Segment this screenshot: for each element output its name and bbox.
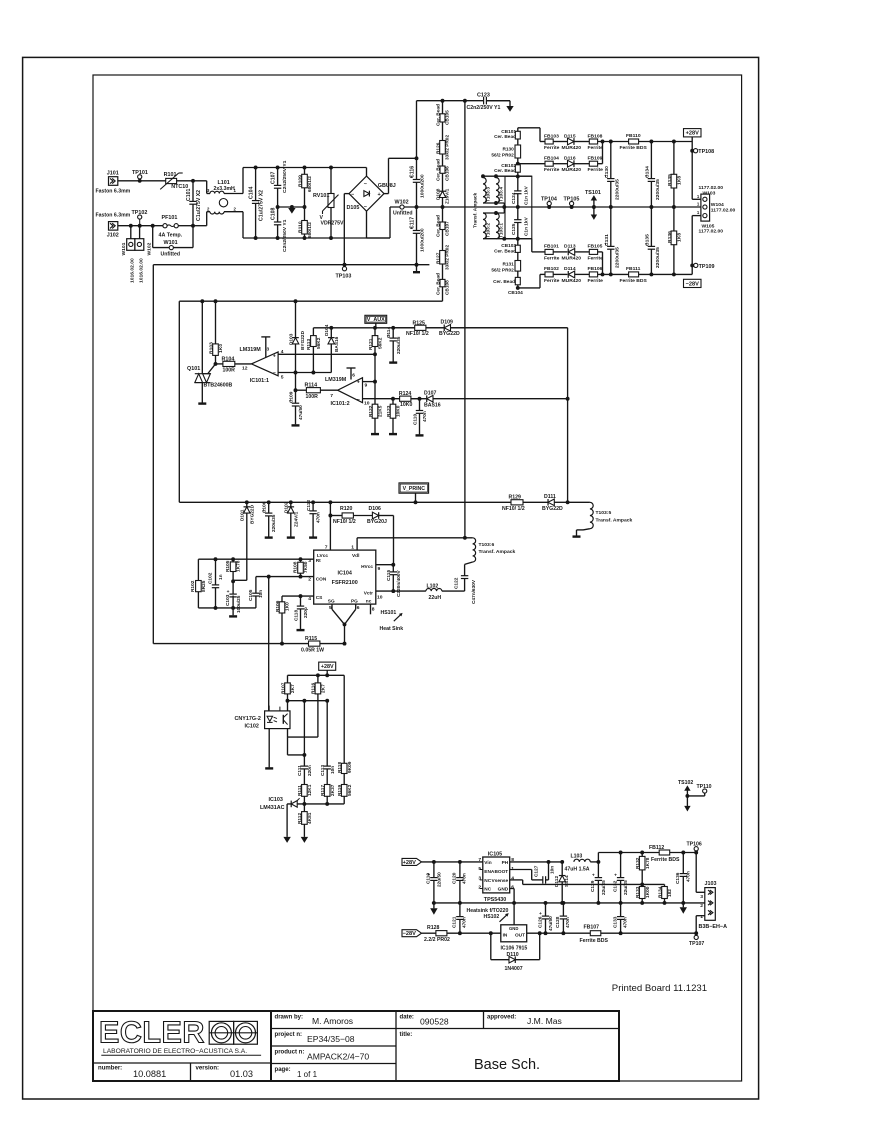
connector W103 W104 W105	[692, 198, 701, 200]
wire Vdl	[357, 537, 465, 539]
test point TP102	[138, 224, 142, 228]
svg-text:2.2/2 PR02: 2.2/2 PR02	[424, 937, 450, 943]
svg-text:GND: GND	[498, 887, 509, 893]
net label V_PRINC	[399, 483, 429, 493]
svg-text:C119: C119	[426, 873, 432, 884]
svg-text:9: 9	[378, 566, 381, 572]
svg-text:C129: C129	[590, 880, 596, 892]
svg-text:+: +	[378, 192, 381, 198]
svg-text:1K8: 1K8	[677, 176, 683, 185]
resistor R117	[324, 785, 330, 797]
capacitor C117	[416, 207, 418, 230]
svg-text:D114: D114	[564, 266, 576, 272]
svg-text:BTB24600B: BTB24600B	[204, 382, 233, 388]
svg-text:J102: J102	[107, 233, 119, 239]
resistor R106	[281, 596, 283, 602]
svg-text:BYG22D: BYG22D	[542, 506, 563, 512]
svg-text:100R: 100R	[306, 394, 319, 400]
wire	[286, 804, 288, 837]
svg-text:C126: C126	[537, 916, 543, 928]
svg-text:CB107: CB107	[445, 221, 451, 236]
svg-text:NF10/ 1/2: NF10/ 1/2	[502, 506, 525, 512]
svg-text:ECLER: ECLER	[99, 1016, 205, 1050]
svg-text:number:: number:	[98, 1066, 122, 1072]
svg-text:C106: C106	[262, 501, 268, 513]
svg-text:2K7: 2K7	[290, 684, 296, 693]
wire	[278, 206, 305, 208]
svg-text:W102: W102	[395, 200, 409, 206]
svg-text:1 of 1: 1 of 1	[297, 1070, 318, 1079]
svg-text:+: +	[614, 874, 617, 879]
svg-text:C104: C104	[249, 187, 255, 199]
svg-text:470n: 470n	[565, 917, 571, 928]
wire LED cathode	[268, 729, 270, 768]
ferrite bead FB101	[545, 249, 553, 254]
svg-text:B3B−EH−A: B3B−EH−A	[699, 924, 728, 930]
svg-text:+28V: +28V	[403, 860, 417, 866]
ferrite bead CB108	[442, 264, 444, 279]
svg-text:R122: R122	[368, 405, 374, 417]
ground stub	[198, 402, 206, 404]
svg-text:7: 7	[325, 545, 328, 551]
svg-text:drawn by:: drawn by:	[275, 1015, 304, 1021]
svg-text:10n: 10n	[258, 590, 264, 598]
svg-text:D116: D116	[564, 156, 576, 162]
wire	[483, 238, 532, 240]
svg-text:Cer. Bead: Cer. Bead	[436, 273, 442, 295]
svg-text:7: 7	[330, 393, 333, 399]
svg-text:FB104: FB104	[544, 156, 559, 162]
resistor R121	[374, 328, 376, 336]
svg-text:220n: 220n	[307, 765, 313, 776]
svg-text:1K00: 1K00	[645, 886, 651, 898]
svg-text:BYG22D: BYG22D	[249, 504, 255, 524]
svg-text:R126: R126	[436, 142, 442, 154]
svg-text:Transf. Ampack: Transf. Ampack	[479, 549, 516, 555]
svg-text:6: 6	[352, 372, 355, 378]
svg-text:C47n/630V: C47n/630V	[471, 579, 477, 604]
wire minus output	[344, 193, 349, 195]
svg-text:−28V: −28V	[403, 931, 417, 937]
op-amp IC101:1 LM319M	[251, 352, 278, 376]
svg-text:8R25: 8R25	[201, 580, 207, 592]
svg-text:TP107: TP107	[689, 941, 704, 947]
svg-text:J.M. Mas: J.M. Mas	[527, 1016, 562, 1026]
wire	[178, 225, 193, 227]
svg-text:IC101:1: IC101:1	[250, 378, 269, 384]
svg-text:R102: R102	[190, 580, 196, 592]
svg-text:5: 5	[329, 605, 332, 611]
svg-text:8: 8	[372, 607, 375, 613]
wire	[288, 674, 345, 676]
svg-text:D104: D104	[324, 324, 330, 336]
svg-text:R106: R106	[275, 600, 281, 612]
wire pin 9	[363, 381, 376, 383]
svg-text:NF10/ 1/2: NF10/ 1/2	[406, 331, 429, 337]
svg-text:TS101: TS101	[585, 190, 601, 196]
svg-text:C122: C122	[454, 577, 460, 589]
svg-text:C133: C133	[612, 916, 618, 928]
bridge rectifier D105 GBU8J	[349, 176, 384, 211]
svg-text:W105: W105	[702, 223, 715, 229]
svg-text:C107: C107	[271, 172, 277, 184]
svg-text:1000u/200: 1000u/200	[420, 174, 426, 198]
svg-text:Unfitted: Unfitted	[393, 211, 413, 217]
svg-text:T103:5: T103:5	[596, 510, 612, 516]
diode D115	[553, 141, 567, 143]
test point TP110	[687, 795, 704, 797]
capacitor C115	[392, 565, 394, 572]
test point TP106	[694, 851, 698, 855]
thermistor R101 NTC10	[166, 178, 177, 183]
svg-text:Faston 6.3mm: Faston 6.3mm	[96, 189, 131, 195]
svg-text:IC104: IC104	[338, 571, 352, 577]
capacitor C126	[545, 903, 547, 916]
svg-text:R131: R131	[502, 262, 514, 268]
wire	[177, 180, 207, 182]
svg-text:TS102: TS102	[678, 780, 693, 786]
svg-text:C117: C117	[410, 217, 416, 229]
svg-text:product n:: product n:	[275, 1050, 305, 1056]
svg-text:10n: 10n	[550, 866, 556, 874]
pin 9 stub HVcc	[376, 564, 394, 566]
wire	[601, 932, 696, 934]
svg-text:Cer. Bead: Cer. Bead	[494, 168, 516, 174]
svg-text:ENA: ENA	[484, 869, 495, 875]
diode D111	[523, 501, 548, 503]
transformer winding T103:5	[568, 501, 590, 503]
svg-text:4: 4	[281, 349, 284, 355]
svg-text:FB107: FB107	[584, 924, 600, 930]
svg-text:R129: R129	[509, 494, 521, 500]
svg-text:C132: C132	[612, 880, 618, 892]
transformer winding T103:1	[496, 213, 499, 239]
test point TP103	[343, 263, 347, 267]
svg-text:CB101: CB101	[501, 129, 516, 135]
wire minus rail	[153, 264, 429, 266]
resistor R127	[442, 230, 444, 251]
resistor R133	[641, 884, 643, 886]
svg-text:C102: C102	[207, 572, 213, 584]
capacitor C131	[610, 207, 612, 246]
wire feedback	[523, 883, 665, 885]
svg-text:D110: D110	[507, 952, 519, 958]
svg-text:R107: R107	[280, 682, 286, 694]
svg-text:IC106 7915: IC106 7915	[501, 945, 528, 951]
svg-text:TP102: TP102	[132, 210, 148, 216]
resistor R128	[422, 932, 436, 934]
svg-text:C114: C114	[386, 327, 392, 338]
capacitor C136	[682, 853, 684, 874]
ground stub	[371, 433, 379, 435]
svg-text:C116: C116	[410, 166, 416, 178]
svg-text:22u/25: 22u/25	[623, 880, 629, 895]
svg-text:Z24V/1: Z24V/1	[293, 511, 299, 527]
svg-text:C123: C123	[477, 92, 490, 98]
diode D112 SS14	[561, 862, 563, 875]
resistor R123	[391, 397, 395, 401]
ferrite bead FB102	[545, 272, 553, 277]
resistor R102	[197, 559, 199, 580]
ground stub	[287, 536, 295, 538]
svg-text:W104: W104	[711, 202, 724, 208]
diode D106	[353, 515, 372, 517]
wire aux box bottom	[179, 501, 511, 503]
svg-text:01.03: 01.03	[230, 1069, 253, 1079]
connector J102	[109, 222, 118, 231]
power stub pin 3	[265, 337, 267, 358]
svg-text:1N4007: 1N4007	[505, 966, 523, 972]
ferrite bead FB105	[575, 251, 590, 253]
svg-text:1: 1	[351, 545, 354, 551]
svg-text:0.05R 1W: 0.05R 1W	[301, 647, 324, 653]
resistor R104	[216, 363, 223, 365]
wire	[583, 529, 590, 530]
diode D104	[329, 326, 333, 330]
svg-text:Base Sch.: Base Sch.	[474, 1057, 540, 1073]
ground stub	[265, 767, 273, 769]
op-amp IC101:2 LM319M	[338, 378, 363, 403]
svg-text:D102: D102	[284, 501, 290, 513]
capacitor C122	[461, 576, 468, 579]
svg-text:R108: R108	[292, 561, 298, 573]
ferrite bead FB107	[590, 931, 601, 936]
pin 10 stub Vctr	[376, 590, 426, 592]
wire	[367, 237, 391, 239]
ground arrow	[283, 837, 290, 843]
wire	[288, 700, 328, 702]
svg-text:C136: C136	[675, 872, 681, 884]
resistor R124	[400, 396, 411, 401]
svg-text:R105: R105	[225, 560, 231, 572]
svg-text:22u/50: 22u/50	[436, 872, 442, 887]
svg-text:3: 3	[267, 347, 270, 353]
svg-text:Vctr: Vctr	[364, 590, 373, 596]
svg-text:R103: R103	[209, 342, 215, 354]
wire	[598, 141, 693, 143]
svg-text:56/2 PR02: 56/2 PR02	[491, 153, 514, 159]
svg-text:1: 1	[511, 866, 514, 872]
svg-text:RV101: RV101	[313, 193, 329, 199]
svg-text:2: 2	[308, 576, 311, 582]
svg-text:C128: C128	[555, 916, 561, 928]
svg-text:470n: 470n	[686, 871, 692, 882]
ground arrow	[682, 903, 684, 907]
ferrite bead CB105	[441, 99, 445, 103]
wire rectifier row 1	[539, 128, 541, 142]
wire V_AUX rail	[313, 327, 567, 329]
svg-text:FB109: FB109	[588, 156, 603, 162]
wire plus output	[384, 193, 389, 195]
svg-text:Ferrite: Ferrite	[588, 255, 604, 261]
svg-text:R119: R119	[337, 785, 343, 796]
ferrite bead CB106	[442, 154, 444, 166]
svg-text:approved:: approved:	[487, 1015, 516, 1021]
resistor R132	[641, 853, 643, 857]
resistor R110	[304, 207, 306, 221]
wire gnd rail	[432, 902, 705, 904]
svg-text:FB110: FB110	[626, 133, 641, 139]
test point TP105	[570, 205, 574, 209]
svg-text:IN: IN	[503, 933, 508, 939]
resistor R129	[511, 500, 523, 505]
svg-text:R130: R130	[502, 147, 514, 153]
svg-text:9: 9	[365, 383, 368, 389]
svg-text:R135: R135	[667, 174, 673, 186]
svg-text:R115: R115	[305, 636, 317, 642]
svg-text:C101: C101	[186, 189, 192, 201]
svg-text:R104: R104	[222, 357, 235, 363]
svg-text:BYG20J: BYG20J	[367, 519, 387, 525]
test point TP107	[694, 935, 698, 939]
resistor R112	[303, 804, 305, 812]
svg-text:V_PRINC: V_PRINC	[403, 486, 426, 492]
svg-text:C113: C113	[320, 765, 326, 776]
svg-text:C2n2/250V Y1: C2n2/250V Y1	[282, 219, 288, 252]
svg-text:title:: title:	[400, 1032, 413, 1038]
earth ground	[486, 100, 510, 102]
wire ground line	[153, 643, 308, 645]
svg-text:7: 7	[478, 857, 481, 863]
wire pin 10	[363, 398, 420, 400]
capacitor C103	[232, 581, 234, 594]
svg-text:100u/25: 100u/25	[236, 595, 242, 613]
svg-text:Ferrite BDS: Ferrite BDS	[620, 278, 648, 284]
svg-text:R109: R109	[298, 175, 304, 187]
svg-text:CS: CS	[316, 595, 323, 601]
svg-text:FB108: FB108	[588, 133, 603, 139]
svg-text:2K7: 2K7	[320, 684, 326, 693]
svg-text:22uH: 22uH	[429, 595, 442, 601]
wire	[598, 251, 603, 253]
svg-text:T103:1: T103:1	[499, 223, 505, 238]
svg-text:TP106: TP106	[687, 841, 702, 847]
wire aux box top	[179, 300, 442, 302]
svg-text:FB102: FB102	[544, 266, 559, 272]
resistor R120	[328, 500, 332, 504]
wire vertical hv bus	[464, 101, 466, 538]
svg-text:L103: L103	[571, 854, 583, 860]
svg-text:C110: C110	[412, 414, 418, 425]
svg-text:CB106: CB106	[445, 166, 451, 181]
svg-text:IC102: IC102	[245, 723, 259, 729]
svg-text:R136: R136	[667, 231, 673, 243]
svg-text:CON: CON	[316, 576, 327, 582]
svg-text:FB105: FB105	[588, 244, 603, 250]
svg-text:C118: C118	[293, 610, 299, 621]
svg-text:nc: nc	[366, 600, 372, 605]
net label V_AUX	[365, 315, 387, 323]
test point TP108	[690, 149, 694, 153]
capacitor C123	[463, 99, 467, 103]
diode D114	[553, 273, 567, 275]
wire top rail	[243, 167, 367, 169]
svg-text:Ferrite BDS: Ferrite BDS	[580, 938, 609, 944]
jumper W101 unfitted	[151, 224, 155, 228]
svg-text:R112: R112	[297, 813, 303, 824]
svg-text:L102: L102	[427, 584, 439, 590]
ferrite bead FB109	[574, 163, 589, 165]
svg-text:V_AUX: V_AUX	[367, 317, 385, 323]
svg-text:M. Amoros: M. Amoros	[312, 1016, 353, 1026]
earth ground	[290, 205, 294, 209]
capacitor C107	[276, 166, 280, 170]
capacitor C119	[433, 862, 435, 878]
svg-text:PF101: PF101	[162, 215, 178, 221]
svg-text:2200u/35: 2200u/35	[615, 247, 621, 268]
svg-text:C108: C108	[271, 208, 277, 220]
svg-text:MUR420: MUR420	[562, 167, 582, 173]
svg-text:2200u/35: 2200u/35	[655, 179, 661, 200]
capacitor C135	[650, 207, 652, 246]
svg-text:R123: R123	[386, 405, 392, 417]
svg-text:1000u/200: 1000u/200	[420, 228, 426, 252]
svg-text:D111: D111	[544, 494, 556, 500]
svg-text:project n:: project n:	[275, 1032, 303, 1038]
svg-text:10: 10	[377, 594, 383, 600]
svg-text:2: 2	[700, 903, 703, 909]
wire pin 4	[278, 353, 375, 355]
svg-text:R128: R128	[427, 925, 439, 931]
wire -15V rail	[527, 932, 591, 934]
resistor R135	[673, 142, 675, 175]
svg-text:C112: C112	[306, 500, 312, 511]
svg-text:220u/35: 220u/35	[271, 514, 277, 532]
svg-text:TP109: TP109	[699, 264, 715, 270]
svg-text:D105: D105	[347, 205, 360, 211]
svg-text:T103:2: T103:2	[486, 223, 492, 238]
svg-text:C1n 1kV: C1n 1kV	[524, 216, 530, 236]
diode D103	[294, 299, 298, 303]
svg-text:−: −	[357, 397, 360, 403]
svg-text:Ferrite: Ferrite	[544, 167, 560, 173]
svg-text:HS102: HS102	[484, 914, 500, 920]
svg-text:4K81: 4K81	[307, 812, 313, 824]
wire	[118, 225, 163, 227]
svg-text:BOOT: BOOT	[494, 869, 508, 875]
svg-text:10.0881: 10.0881	[133, 1069, 166, 1079]
svg-text:D109: D109	[441, 320, 453, 326]
ground stub	[416, 265, 418, 272]
svg-text:+: +	[592, 874, 595, 879]
svg-text:BYG22D: BYG22D	[300, 330, 306, 350]
svg-text:C111: C111	[297, 765, 303, 776]
svg-text:HS101: HS101	[381, 610, 397, 616]
pin 3 stub Rt	[198, 558, 313, 560]
svg-text:LM319M: LM319M	[240, 347, 262, 353]
wire	[598, 273, 693, 275]
svg-text:680/1/2: 680/1/2	[307, 176, 313, 192]
resistor R111	[302, 785, 308, 797]
wire bottom rail	[243, 237, 390, 239]
svg-text:Unfitted: Unfitted	[161, 252, 181, 258]
svg-text:470n: 470n	[462, 873, 468, 884]
wire	[422, 861, 483, 863]
svg-text:LABORATORIO DE ELECTRO−ACUSTIC: LABORATORIO DE ELECTRO−ACUSTICA S.A.	[103, 1048, 247, 1055]
svg-text:56K2: 56K2	[378, 337, 384, 349]
svg-text:R127: R127	[436, 252, 442, 264]
svg-text:version:: version:	[196, 1066, 220, 1072]
svg-text:47u/50: 47u/50	[298, 405, 304, 420]
pin 7 stub	[329, 502, 331, 550]
svg-text:+: +	[357, 380, 360, 386]
resistor R116	[317, 675, 319, 683]
wire gate	[208, 364, 216, 374]
resistor R105	[232, 559, 234, 562]
capacitor C110	[418, 397, 422, 401]
pin 1 stub	[356, 538, 358, 550]
svg-text:CB105: CB105	[445, 110, 451, 125]
